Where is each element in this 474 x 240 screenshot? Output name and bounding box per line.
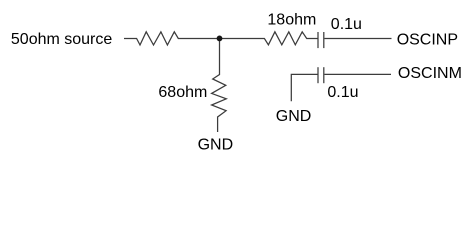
svg-text:68ohm: 68ohm	[158, 84, 207, 101]
svg-text:OSCINP: OSCINP	[397, 31, 458, 48]
svg-text:18ohm: 18ohm	[267, 11, 316, 28]
svg-text:OSCINM: OSCINM	[398, 65, 462, 82]
svg-text:GND: GND	[276, 108, 312, 125]
svg-text:0.1u: 0.1u	[327, 84, 358, 101]
svg-text:0.1u: 0.1u	[331, 16, 362, 33]
svg-text:GND: GND	[198, 137, 234, 154]
svg-text:50ohm source: 50ohm source	[11, 31, 112, 48]
